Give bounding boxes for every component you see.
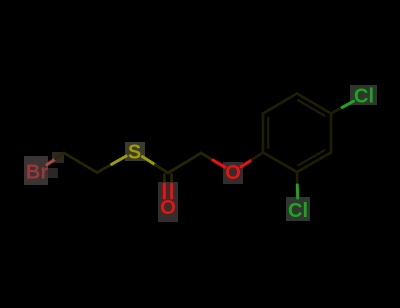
halo behind top Cl label xyxy=(350,85,377,105)
artifact patch on Br bond upper half xyxy=(52,152,64,163)
halo behind S label xyxy=(125,142,145,161)
halo behind ether O label xyxy=(223,162,243,184)
ring bond C5-C6 xyxy=(263,94,297,114)
halo behind carbonyl O label and double bond xyxy=(158,182,178,222)
bond S-C(=O) xyxy=(143,157,169,173)
svg-text:Cl: Cl xyxy=(354,86,374,108)
halo behind bottom Cl label xyxy=(286,197,310,221)
svg-text:O: O xyxy=(160,197,176,219)
ring bond C6-C1 xyxy=(262,114,265,153)
bond CH2-O xyxy=(201,153,225,167)
ring bond C4-C5 xyxy=(297,94,331,114)
artifact patch on Br bond lower half xyxy=(48,168,58,178)
bond CH2-S xyxy=(97,156,126,172)
svg-text:Cl: Cl xyxy=(288,200,308,222)
bond O-C(aryl) xyxy=(241,153,263,167)
svg-text:O: O xyxy=(225,162,241,184)
svg-text:S: S xyxy=(128,142,141,164)
halo behind Br label xyxy=(24,156,48,185)
svg-text:Br: Br xyxy=(26,162,48,184)
bond CH2-CH2 (wire) xyxy=(64,153,97,173)
bond C4-Cl (para) xyxy=(331,101,354,113)
inner aromatic line of ring bond A6-A1 xyxy=(267,118,269,148)
ring bond C1-C2 xyxy=(263,153,297,173)
bond Br-CH2 (C-Br) xyxy=(47,153,64,165)
double bond C=O (carbonyl) xyxy=(164,175,171,199)
ring bond C3-C4 xyxy=(330,114,333,153)
inner aromatic line of ring bond A4-A5 xyxy=(298,100,324,115)
inner aromatic line of ring bond A2-A3 xyxy=(298,150,324,165)
bond C2-Cl (ortho) xyxy=(296,172,299,198)
bond C(=O)-CH2 xyxy=(168,153,201,173)
ring bond C2-C3 xyxy=(297,153,331,173)
